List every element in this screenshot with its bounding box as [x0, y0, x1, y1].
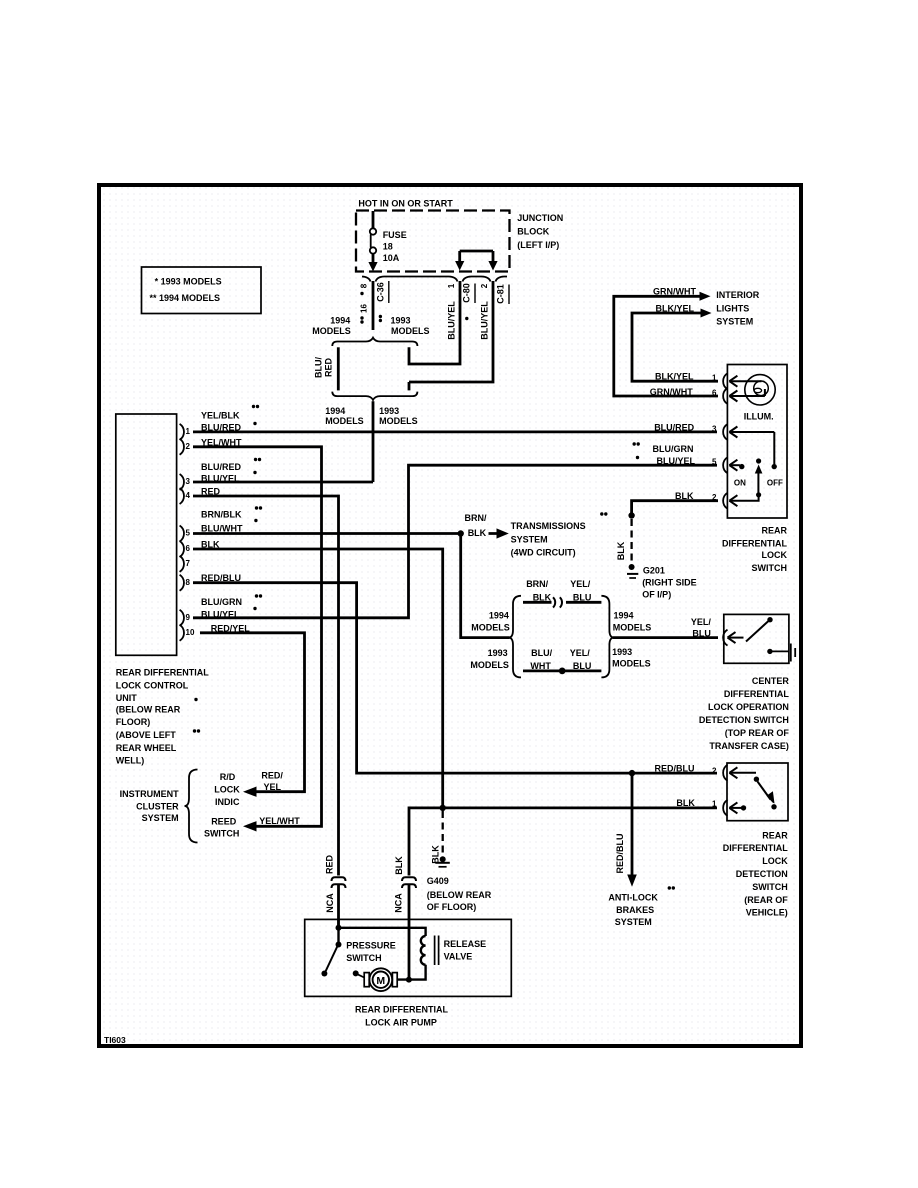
svg-text:INSTRUMENT: INSTRUMENT [120, 789, 179, 799]
svg-text:MODELS: MODELS [325, 416, 364, 426]
svg-text:BLU/YEL: BLU/YEL [201, 474, 240, 484]
svg-text:MODELS: MODELS [379, 416, 418, 426]
svg-text:2: 2 [712, 767, 717, 776]
svg-text:LOCK OPERATION: LOCK OPERATION [708, 702, 789, 712]
svg-text:8: 8 [186, 578, 191, 587]
svg-text:(TOP REAR OF: (TOP REAR OF [725, 728, 790, 738]
svg-text:C-81: C-81 [496, 284, 506, 304]
svg-text:SWITCH: SWITCH [346, 953, 382, 963]
svg-text:WHT: WHT [530, 661, 551, 671]
svg-text:SYSTEM: SYSTEM [511, 535, 548, 545]
svg-text:18: 18 [383, 242, 393, 252]
svg-text:HOT IN ON OR START: HOT IN ON OR START [358, 199, 453, 209]
svg-text:REAR DIFFERENTIAL: REAR DIFFERENTIAL [116, 668, 209, 678]
svg-text:MODELS: MODELS [312, 326, 351, 336]
svg-text:VALVE: VALVE [444, 952, 473, 962]
svg-text:BRN/BLK: BRN/BLK [201, 510, 242, 520]
svg-text:1994: 1994 [325, 406, 345, 416]
svg-text:CENTER: CENTER [752, 676, 790, 686]
svg-text:2: 2 [712, 493, 717, 502]
svg-text:LOCK: LOCK [214, 785, 240, 795]
svg-text:BLK/YEL: BLK/YEL [655, 371, 694, 381]
svg-text:BLK: BLK [468, 528, 487, 538]
svg-text:RED/BLU: RED/BLU [615, 834, 625, 874]
svg-text:(REAR OF: (REAR OF [744, 895, 788, 905]
svg-text:OF FLOOR): OF FLOOR) [427, 902, 477, 912]
svg-text:4: 4 [186, 491, 191, 500]
svg-text:10: 10 [186, 628, 195, 637]
svg-text:MODELS: MODELS [612, 659, 651, 669]
svg-text:(ABOVE LEFT: (ABOVE LEFT [116, 730, 177, 740]
svg-text:1994: 1994 [614, 610, 634, 620]
svg-text:MODELS: MODELS [471, 623, 510, 633]
svg-text:BLU/YEL: BLU/YEL [656, 456, 695, 466]
svg-text:TRANSFER CASE): TRANSFER CASE) [709, 741, 789, 751]
svg-text:SWITCH: SWITCH [204, 828, 240, 838]
svg-text:RED: RED [201, 487, 221, 497]
svg-text:(RIGHT SIDE: (RIGHT SIDE [642, 578, 697, 588]
svg-text:YEL/BLK: YEL/BLK [201, 411, 240, 421]
svg-text:1: 1 [712, 374, 717, 383]
svg-text:FUSE: FUSE [383, 230, 407, 240]
svg-text:MODELS: MODELS [391, 326, 430, 336]
svg-text:REAR: REAR [761, 526, 787, 536]
svg-text:RELEASE: RELEASE [444, 939, 487, 949]
svg-text:NCA: NCA [325, 893, 335, 913]
svg-text:BLK: BLK [675, 491, 694, 501]
svg-text:* 1993 MODELS: * 1993 MODELS [155, 277, 222, 287]
svg-text:BLK: BLK [616, 541, 626, 560]
svg-text:BLU/WHT: BLU/WHT [201, 523, 243, 533]
svg-text:YEL/WHT: YEL/WHT [201, 437, 242, 447]
svg-text:BLK: BLK [394, 856, 404, 875]
svg-text:(BELOW REAR: (BELOW REAR [427, 890, 492, 900]
svg-text:LOCK: LOCK [762, 856, 788, 866]
svg-text:REAR WHEEL: REAR WHEEL [116, 743, 177, 753]
svg-text:UNIT: UNIT [116, 693, 137, 703]
svg-text:BLK: BLK [533, 592, 552, 602]
svg-text:MODELS: MODELS [470, 660, 509, 670]
svg-text:R/D: R/D [220, 772, 236, 782]
svg-text:3: 3 [186, 477, 191, 486]
svg-text:OF I/P): OF I/P) [642, 590, 671, 600]
svg-text:SYSTEM: SYSTEM [142, 813, 179, 823]
svg-text:VEHICLE): VEHICLE) [746, 907, 788, 917]
svg-text:BLK: BLK [676, 798, 695, 808]
svg-text:(BELOW REAR: (BELOW REAR [116, 705, 181, 715]
svg-text:BRN/: BRN/ [465, 513, 487, 523]
svg-text:REAR: REAR [762, 831, 788, 841]
svg-text:TRANSMISSIONS: TRANSMISSIONS [511, 521, 586, 531]
svg-text:BLU/: BLU/ [531, 648, 552, 658]
svg-text:REAR DIFFERENTIAL: REAR DIFFERENTIAL [355, 1005, 448, 1015]
svg-text:DETECTION: DETECTION [736, 869, 788, 879]
svg-text:SYSTEM: SYSTEM [615, 917, 652, 927]
svg-text:LOCK AIR PUMP: LOCK AIR PUMP [365, 1018, 437, 1028]
svg-text:DIFFERENTIAL: DIFFERENTIAL [722, 538, 787, 548]
svg-text:BLK: BLK [201, 540, 220, 550]
svg-text:BLU/RED: BLU/RED [201, 423, 241, 433]
svg-text:PRESSURE: PRESSURE [346, 940, 396, 950]
svg-text:1993: 1993 [391, 316, 411, 326]
svg-text:SWITCH: SWITCH [752, 882, 788, 892]
svg-text:JUNCTION: JUNCTION [517, 213, 563, 223]
svg-text:BLOCK: BLOCK [517, 227, 549, 237]
svg-text:INDIC: INDIC [215, 797, 240, 807]
svg-text:6: 6 [712, 389, 717, 398]
svg-text:YEL/WHT: YEL/WHT [259, 816, 300, 826]
svg-text:DIFFERENTIAL: DIFFERENTIAL [724, 689, 789, 699]
svg-text:BLK/YEL: BLK/YEL [655, 304, 694, 314]
svg-text:GRN/WHT: GRN/WHT [650, 387, 693, 397]
svg-text:BLU: BLU [573, 592, 592, 602]
svg-text:G409: G409 [427, 876, 449, 886]
svg-text:LOCK CONTROL: LOCK CONTROL [116, 681, 189, 691]
svg-text:9: 9 [186, 613, 191, 622]
svg-text:BLU/: BLU/ [314, 357, 324, 378]
svg-text:INTERIOR: INTERIOR [716, 290, 760, 300]
svg-text:DETECTION SWITCH: DETECTION SWITCH [699, 715, 789, 725]
svg-text:BLU/YEL: BLU/YEL [201, 610, 240, 620]
svg-text:LOCK: LOCK [762, 550, 788, 560]
svg-text:BLU/YEL: BLU/YEL [480, 301, 490, 340]
svg-text:BLU/GRN: BLU/GRN [201, 597, 242, 607]
svg-text:RED/: RED/ [261, 771, 283, 781]
svg-text:BLU/RED: BLU/RED [654, 423, 694, 433]
svg-text:SWITCH: SWITCH [752, 563, 788, 573]
svg-text:2: 2 [186, 442, 191, 451]
svg-text:BRAKES: BRAKES [616, 905, 654, 915]
svg-text:6: 6 [186, 544, 191, 553]
svg-text:BRN/: BRN/ [526, 579, 548, 589]
svg-text:M: M [376, 975, 385, 987]
svg-text:10A: 10A [383, 253, 400, 263]
svg-text:7: 7 [186, 559, 191, 568]
svg-text:BLU/GRN: BLU/GRN [653, 444, 694, 454]
svg-text:YEL: YEL [264, 782, 282, 792]
svg-text:2: 2 [480, 283, 489, 288]
svg-text:1: 1 [712, 800, 717, 809]
svg-text:5: 5 [712, 458, 717, 467]
svg-text:REED: REED [211, 817, 237, 827]
svg-text:BLU: BLU [692, 629, 711, 639]
svg-text:FLOOR): FLOOR) [116, 717, 151, 727]
svg-text:1993: 1993 [379, 406, 399, 416]
svg-text:C-36: C-36 [376, 282, 386, 302]
svg-text:RED/BLU: RED/BLU [655, 764, 695, 774]
svg-text:G201: G201 [643, 566, 665, 576]
svg-text:NCA: NCA [394, 893, 404, 913]
svg-text:DIFFERENTIAL: DIFFERENTIAL [723, 843, 788, 853]
svg-text:GRN/WHT: GRN/WHT [653, 287, 696, 297]
svg-text:1993: 1993 [612, 647, 632, 657]
svg-text:BLU/YEL: BLU/YEL [447, 301, 457, 340]
svg-text:LIGHTS: LIGHTS [716, 303, 749, 313]
svg-text:1: 1 [447, 283, 456, 288]
svg-text:1994: 1994 [330, 316, 350, 326]
svg-text:BLK: BLK [431, 845, 441, 864]
svg-text:YEL/: YEL/ [691, 617, 712, 627]
svg-text:BLU/RED: BLU/RED [201, 462, 241, 472]
svg-text:CLUSTER: CLUSTER [136, 801, 179, 811]
svg-text:YEL/: YEL/ [570, 579, 591, 589]
svg-text:MODELS: MODELS [613, 623, 652, 633]
svg-text:(LEFT I/P): (LEFT I/P) [517, 240, 559, 250]
svg-text:5: 5 [186, 529, 191, 538]
svg-text:3: 3 [712, 425, 717, 434]
svg-text:YEL/: YEL/ [570, 648, 591, 658]
svg-text:SYSTEM: SYSTEM [716, 316, 753, 326]
svg-text:8: 8 [360, 283, 369, 288]
svg-text:ILLUM.: ILLUM. [744, 411, 774, 421]
svg-text:RED: RED [325, 855, 335, 875]
svg-text:16: 16 [360, 304, 369, 313]
svg-text:ON: ON [734, 479, 746, 488]
svg-text:WELL): WELL) [116, 756, 145, 766]
svg-text:ANTI-LOCK: ANTI-LOCK [608, 893, 658, 903]
svg-text:1993: 1993 [488, 648, 508, 658]
svg-text:RED/YEL: RED/YEL [211, 623, 251, 633]
svg-text:1: 1 [186, 427, 191, 436]
svg-text:C-80: C-80 [462, 283, 472, 303]
svg-text:1994: 1994 [489, 610, 509, 620]
svg-text:(4WD CIRCUIT): (4WD CIRCUIT) [511, 548, 576, 558]
svg-text:OFF: OFF [767, 479, 783, 488]
svg-text:RED/BLU: RED/BLU [201, 573, 241, 583]
svg-text:** 1994 MODELS: ** 1994 MODELS [150, 293, 221, 303]
svg-text:RED: RED [324, 358, 334, 378]
svg-text:TI603: TI603 [104, 1035, 126, 1045]
svg-text:BLU: BLU [573, 661, 592, 671]
